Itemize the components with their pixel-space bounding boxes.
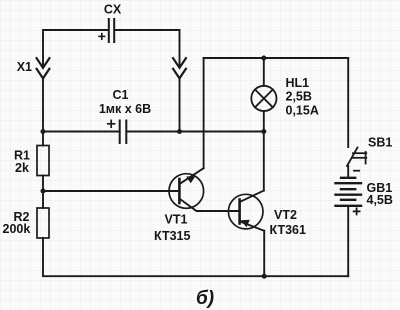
- wire: [42, 176, 44, 209]
- connector X1' plug arrow (right): [173, 58, 186, 68]
- svg-text:2,5В: 2,5В: [286, 90, 312, 104]
- wire C1 row left: [43, 131, 119, 133]
- transistor VT1 base bar: [178, 179, 181, 203]
- svg-text:VT1: VT1: [165, 212, 188, 226]
- lamp HL1: [251, 86, 276, 111]
- capacitor CX: [109, 19, 114, 42]
- battery minus sign: [354, 170, 359, 172]
- node junction dot: [177, 129, 182, 134]
- wire: [115, 30, 179, 68]
- svg-text:б): б): [196, 288, 214, 309]
- node junction dot: [261, 56, 266, 61]
- transistor VT2 base bar: [238, 200, 241, 224]
- node junction dot: [41, 129, 46, 134]
- polarity + of C1: [108, 120, 115, 127]
- node junction dot: [261, 129, 266, 134]
- capacitor C1: [120, 121, 127, 144]
- svg-text:X1: X1: [17, 60, 32, 74]
- wire: [179, 78, 181, 131]
- wire top rail: [204, 57, 349, 59]
- transistor VT1 collector lead: [179, 199, 239, 211]
- svg-text:КТ315: КТ315: [154, 229, 190, 243]
- node junction dot: [41, 189, 46, 194]
- svg-text:VT2: VT2: [274, 208, 297, 222]
- connector X1' socket (right): [173, 69, 186, 79]
- wire top-left segment: [43, 30, 108, 68]
- wire to lamp: [263, 58, 265, 86]
- svg-text:0,15А: 0,15А: [286, 103, 319, 117]
- svg-text:CX: CX: [104, 3, 122, 17]
- battery plus sign: [354, 208, 360, 214]
- polarity + of CX: [99, 34, 105, 40]
- svg-text:КТ361: КТ361: [270, 223, 306, 237]
- wire battery to bottom rail: [347, 207, 349, 276]
- wire base of VT1: [43, 190, 179, 192]
- switch SB1: [347, 148, 366, 167]
- wire SB1 branch: [347, 58, 349, 147]
- wire switch to battery: [347, 166, 349, 177]
- svg-text:2k: 2k: [15, 161, 29, 175]
- node junction dot: [262, 274, 267, 279]
- wire VT2 collector up: [263, 111, 265, 191]
- transistor VT1 body: [169, 174, 204, 209]
- transistor VT2 emitter with arrow: [240, 220, 265, 231]
- svg-text:1мк x 6В: 1мк x 6В: [99, 102, 151, 116]
- wire left vertical: [42, 78, 44, 145]
- svg-text:200k: 200k: [3, 222, 31, 236]
- svg-text:4,5В: 4,5В: [367, 193, 393, 207]
- connector X1 plug arrow: [37, 58, 50, 68]
- transistor VT2 collector lead: [240, 191, 264, 202]
- wire: [43, 238, 348, 276]
- battery GB1: [336, 178, 362, 206]
- svg-text:C1: C1: [113, 88, 129, 102]
- resistor R1: [37, 146, 49, 176]
- wire VT1 emitter up: [203, 58, 205, 168]
- connector X1 socket: [37, 69, 50, 79]
- wire VT2 emitter down: [263, 231, 265, 276]
- transistor VT1 emitter with arrow: [179, 168, 203, 184]
- wire C1 row right: [127, 131, 263, 133]
- transistor VT2 body: [228, 194, 263, 229]
- svg-text:SB1: SB1: [368, 135, 392, 149]
- resistor R2: [37, 208, 49, 238]
- svg-text:HL1: HL1: [286, 76, 310, 90]
